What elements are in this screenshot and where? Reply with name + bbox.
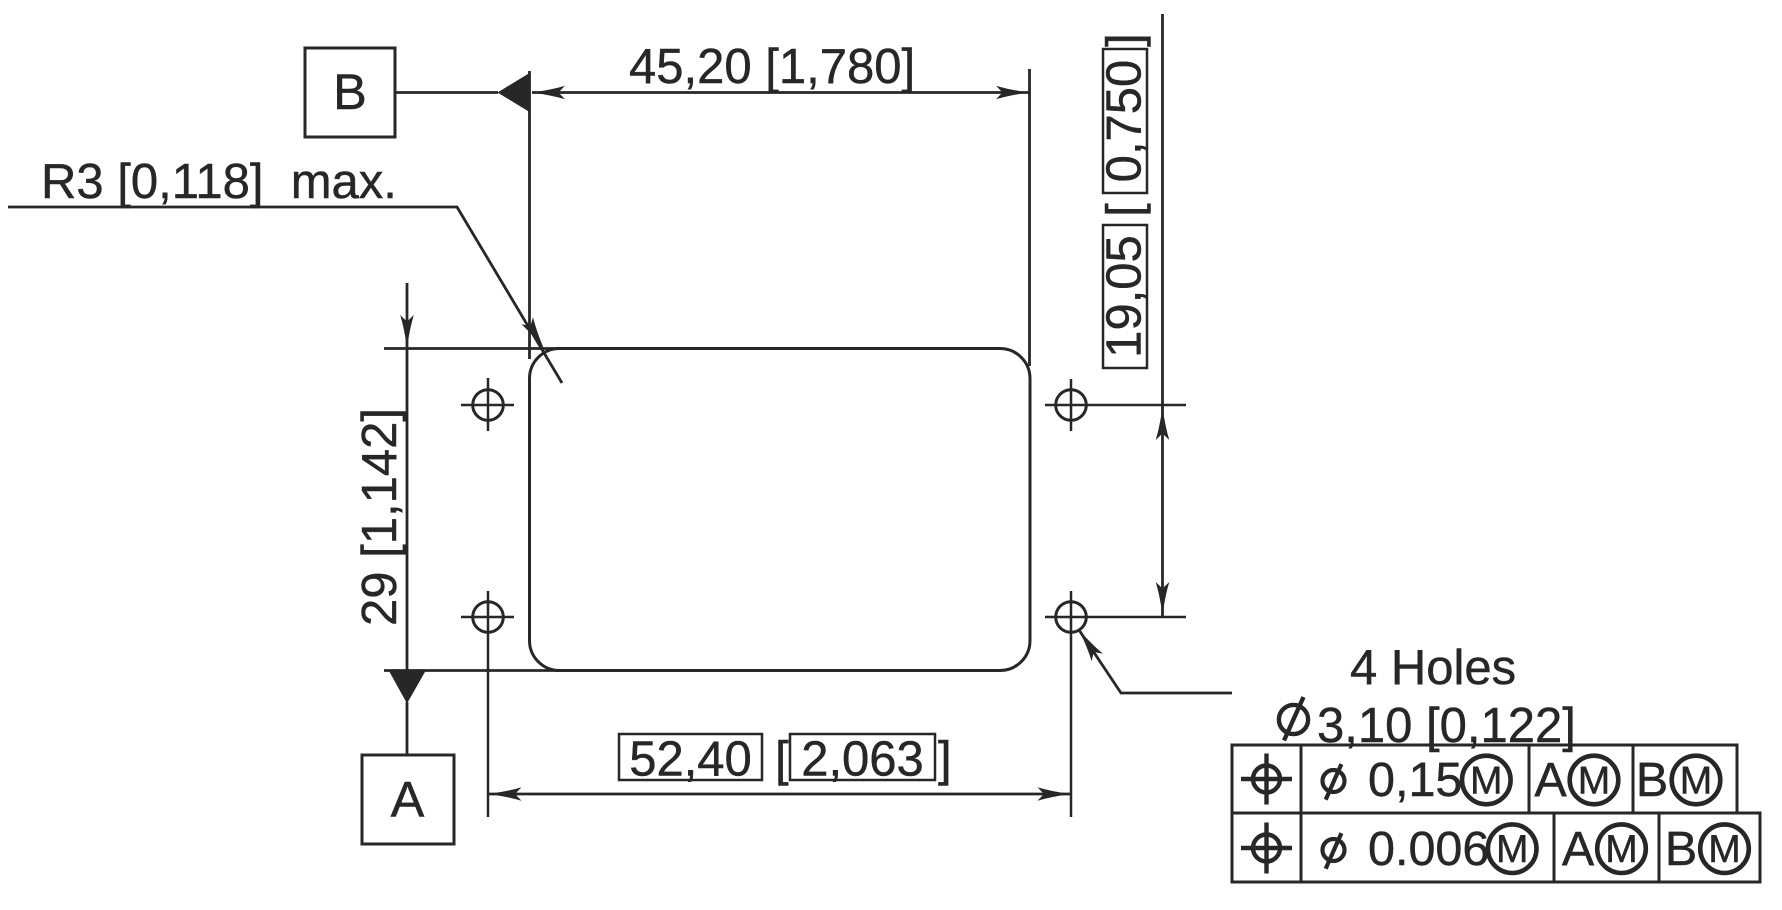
svg-text:B: B — [1636, 753, 1668, 807]
svg-text:A: A — [391, 771, 425, 828]
svg-text:R3 [0,118] max.: R3 [0,118] max. — [41, 155, 397, 209]
svg-text:B: B — [1665, 822, 1697, 876]
svg-text:0,750: 0,750 — [1098, 60, 1152, 183]
svg-text:]: ] — [1098, 33, 1152, 47]
svg-text:2,063: 2,063 — [801, 733, 924, 787]
svg-text:M: M — [1680, 760, 1713, 803]
svg-text:52,40: 52,40 — [629, 733, 752, 787]
svg-text:M: M — [1578, 760, 1611, 803]
svg-text:]: ] — [938, 733, 952, 787]
svg-text:M: M — [1605, 828, 1638, 871]
svg-text:A: A — [1562, 822, 1595, 876]
svg-text:[: [ — [1098, 203, 1152, 217]
svg-text:0,15: 0,15 — [1368, 753, 1462, 807]
svg-text:M: M — [1708, 828, 1741, 871]
svg-text:M: M — [1470, 760, 1503, 803]
svg-text:B: B — [333, 63, 367, 120]
svg-text:A: A — [1534, 753, 1567, 807]
svg-text:4 Holes: 4 Holes — [1350, 641, 1516, 695]
svg-text:45,20 [1,780]: 45,20 [1,780] — [629, 40, 915, 94]
svg-text:[: [ — [775, 733, 789, 787]
svg-text:0.006: 0.006 — [1368, 822, 1489, 876]
svg-text:M: M — [1496, 828, 1529, 871]
svg-text:29 [1,142]: 29 [1,142] — [353, 408, 407, 626]
svg-text:19,05: 19,05 — [1098, 235, 1152, 358]
